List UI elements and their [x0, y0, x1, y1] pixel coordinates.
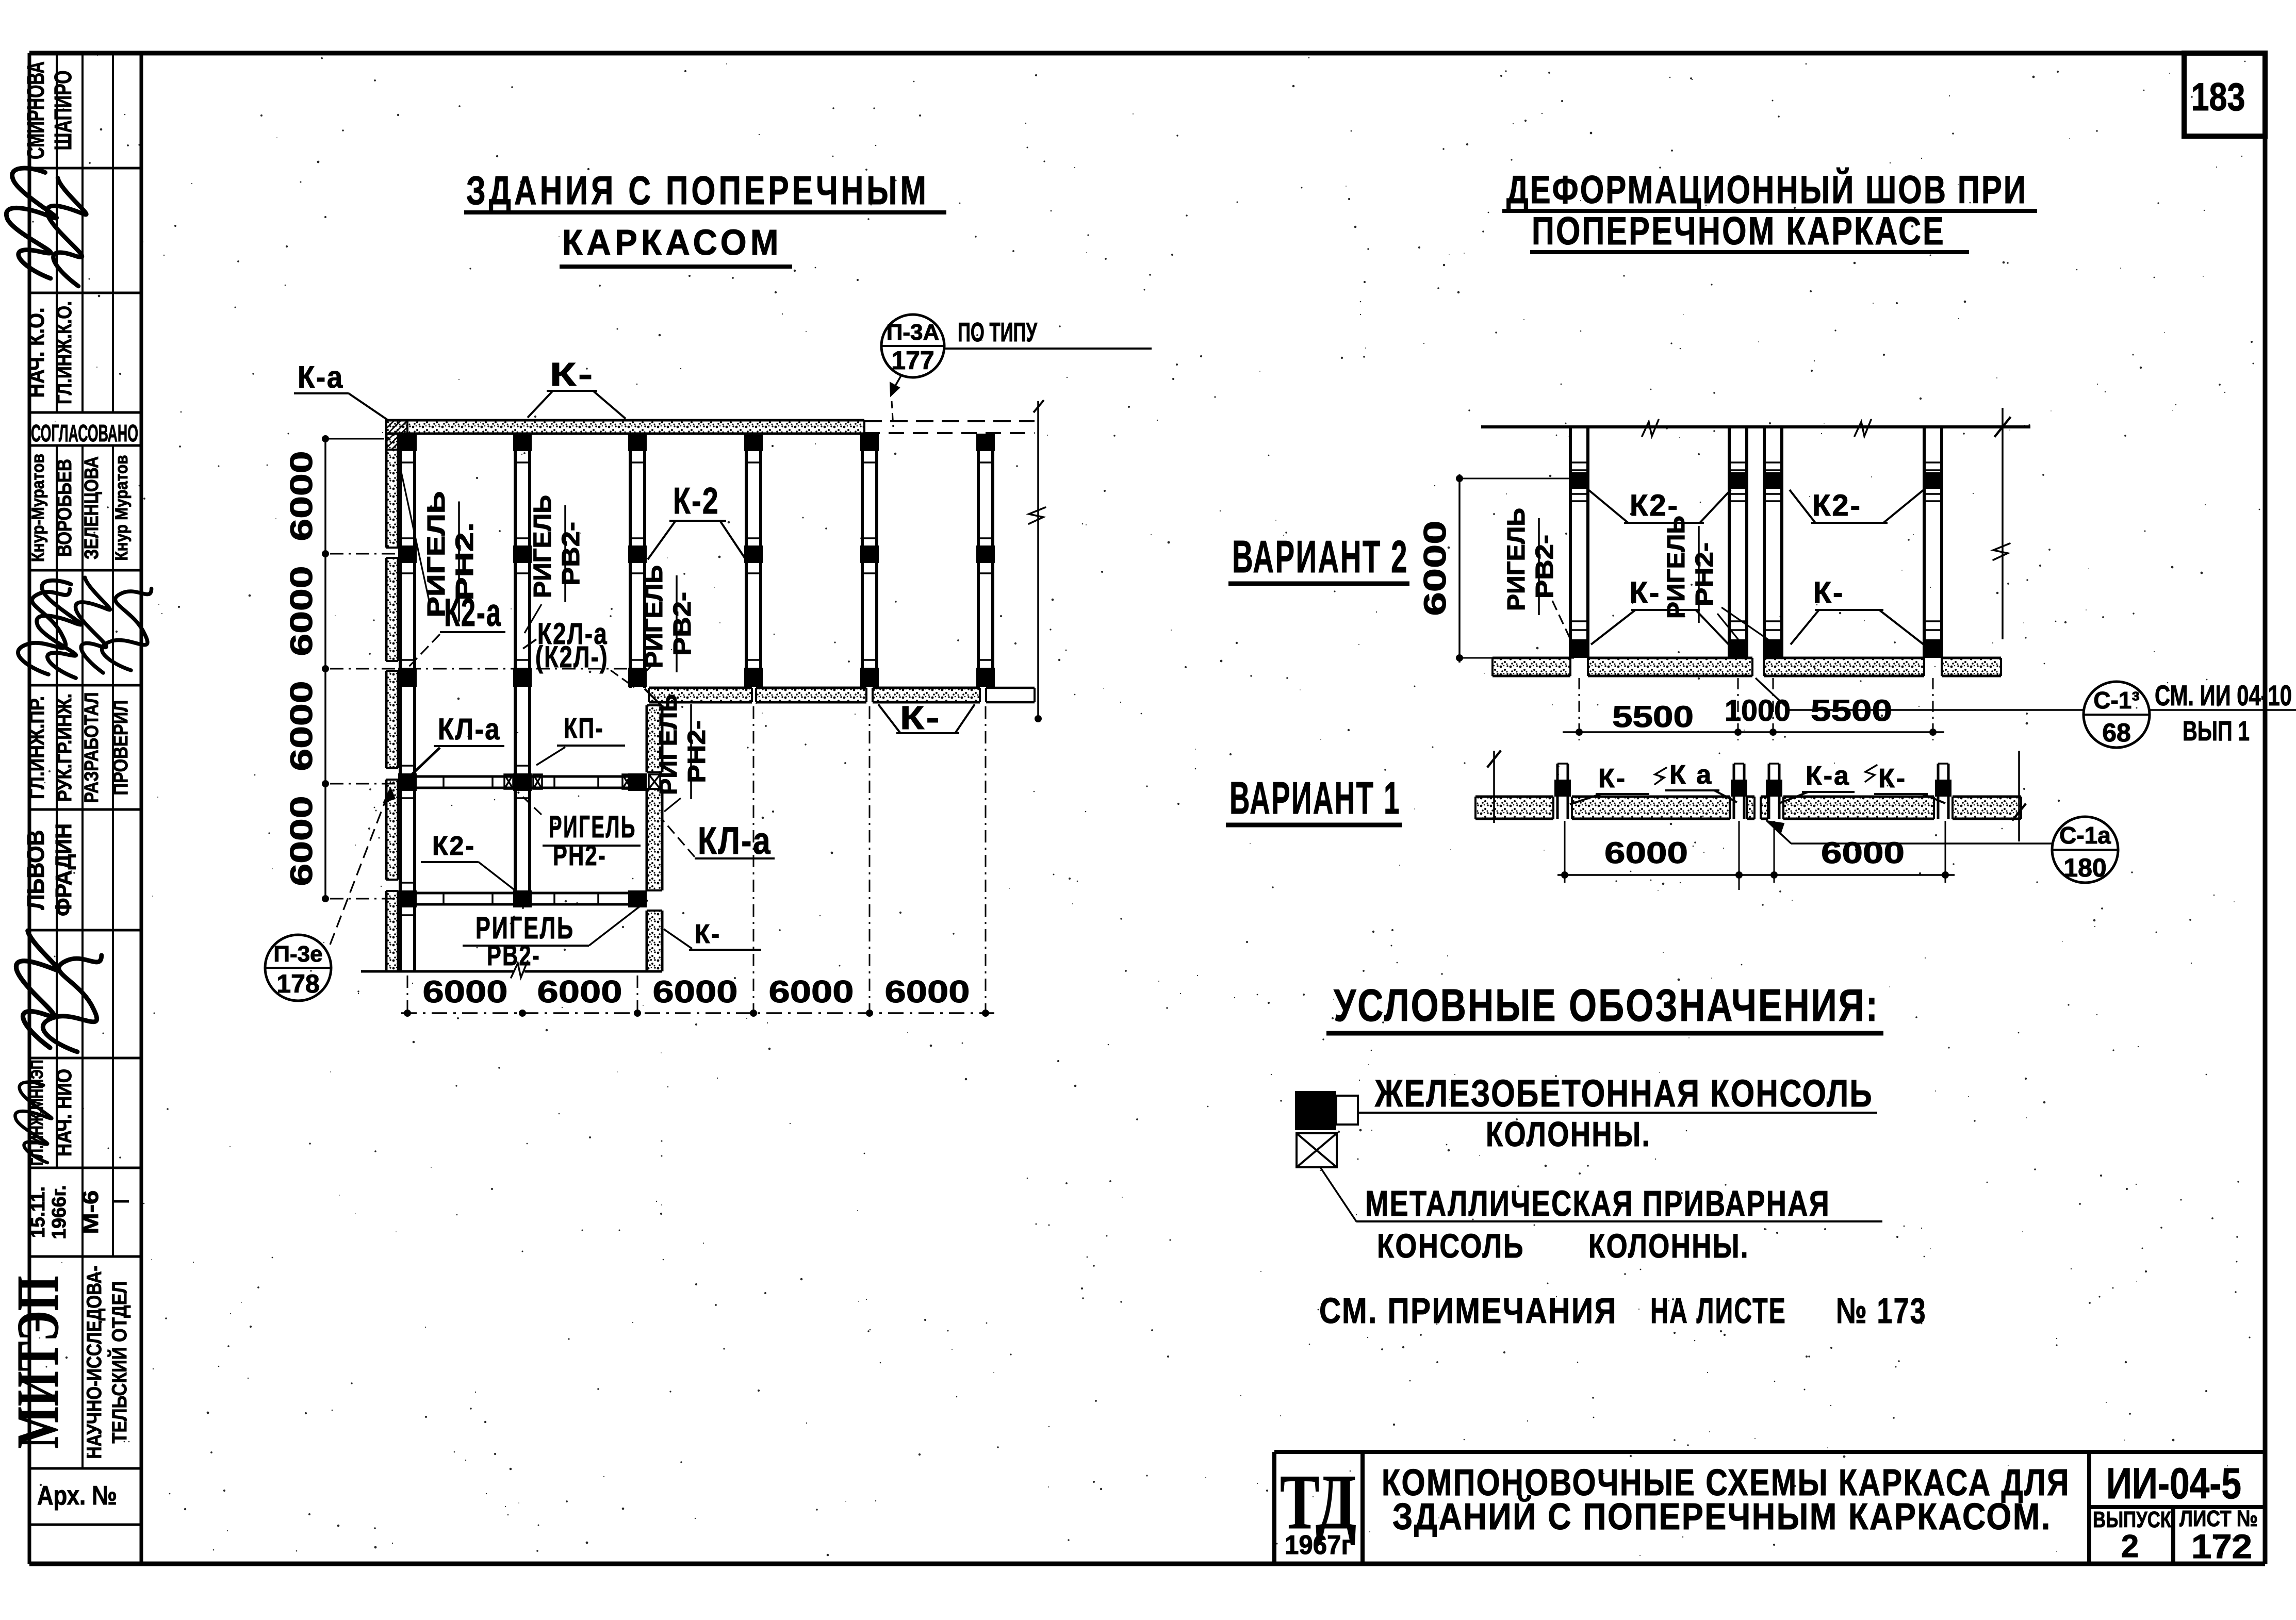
svg-text:РН2-: РН2-	[553, 839, 606, 871]
svg-text:П-3А: П-3А	[887, 320, 940, 345]
svg-text:6000: 6000	[1418, 521, 1452, 616]
svg-text:ТЕЛЬСКИЙ ОТДЕЛ: ТЕЛЬСКИЙ ОТДЕЛ	[107, 1281, 131, 1444]
svg-text:НА ЛИСТЕ: НА ЛИСТЕ	[1650, 1291, 1786, 1331]
svg-text:1000: 1000	[1725, 694, 1791, 728]
svg-text:РИГЕЛЬ: РИГЕЛЬ	[1663, 516, 1690, 619]
svg-text:ФРАДИН: ФРАДИН	[51, 823, 76, 916]
svg-text:ВЫП 1: ВЫП 1	[2183, 716, 2250, 747]
svg-text:ВАРИАНТ 2: ВАРИАНТ 2	[1232, 531, 1408, 582]
svg-text:1967г: 1967г	[1285, 1530, 1352, 1560]
svg-text:К-: К-	[1813, 576, 1845, 609]
svg-text:ПРОВЕРИЛ: ПРОВЕРИЛ	[109, 700, 132, 796]
svg-text:ЗДАНИЙ С ПОПЕРЕЧНЫМ КАРКАСОМ: ЗДАНИЙ С ПОПЕРЕЧНЫМ КАРКАСОМ.	[1392, 1495, 2052, 1538]
svg-text:ПОПЕРЕЧНОМ КАРКАСЕ: ПОПЕРЕЧНОМ КАРКАСЕ	[1532, 209, 1945, 253]
svg-text:К2-: К2-	[1812, 489, 1862, 522]
svg-text:6000: 6000	[769, 974, 854, 1009]
svg-text:С-1а: С-1а	[2059, 822, 2111, 849]
svg-text:6000: 6000	[284, 566, 319, 656]
svg-text:183: 183	[2191, 75, 2245, 119]
svg-text:ГЛ.ИНЖ.К.О.: ГЛ.ИНЖ.К.О.	[53, 301, 76, 404]
svg-text:РИГЕЛЬ: РИГЕЛЬ	[1503, 508, 1530, 611]
svg-text:68: 68	[2102, 718, 2131, 747]
svg-text:ВАРИАНТ 1: ВАРИАНТ 1	[1229, 772, 1401, 823]
svg-text:ЛЬВОВ: ЛЬВОВ	[22, 830, 49, 910]
svg-text:1966г.: 1966г.	[48, 1185, 70, 1239]
svg-text:СМИРНОВА: СМИРНОВА	[22, 61, 49, 159]
svg-text:СОГЛАСОВАНО: СОГЛАСОВАНО	[31, 420, 138, 447]
svg-text:НАУЧНО-ИССЛЕДОВА-: НАУЧНО-ИССЛЕДОВА-	[83, 1266, 106, 1459]
svg-text:К-: К-	[900, 699, 941, 736]
svg-text:К-2: К-2	[673, 481, 719, 522]
svg-text:РН2-: РН2-	[683, 720, 711, 783]
svg-text:РАЗРАБОТАЛ: РАЗРАБОТАЛ	[81, 692, 103, 803]
svg-text:6000: 6000	[284, 681, 319, 771]
svg-text:К-: К-	[550, 356, 595, 393]
svg-text:172: 172	[2191, 1527, 2252, 1565]
svg-text:ЖЕЛЕЗОБЕТОННАЯ КОНСОЛЬ: ЖЕЛЕЗОБЕТОННАЯ КОНСОЛЬ	[1374, 1072, 1873, 1115]
svg-text:РВ2-: РВ2-	[669, 592, 696, 656]
svg-text:РИГЕЛЬ: РИГЕЛЬ	[529, 495, 556, 598]
svg-text:6000: 6000	[653, 974, 738, 1009]
svg-text:МЕТАЛЛИЧЕСКАЯ ПРИВАРНАЯ: МЕТАЛЛИЧЕСКАЯ ПРИВАРНАЯ	[1365, 1183, 1830, 1224]
svg-text:6000: 6000	[423, 974, 508, 1009]
svg-text:НАЧ. НИО: НАЧ. НИО	[52, 1069, 76, 1156]
svg-text:КАРКАСОМ: КАРКАСОМ	[562, 222, 782, 262]
svg-text:6000: 6000	[537, 974, 622, 1009]
svg-text:К-а: К-а	[298, 360, 344, 394]
svg-text:Кнур-Муратов: Кнур-Муратов	[28, 454, 48, 562]
svg-text:КОНСОЛЬ: КОНСОЛЬ	[1377, 1227, 1524, 1265]
svg-text:УСЛОВНЫЕ ОБОЗНАЧЕНИЯ:: УСЛОВНЫЕ ОБОЗНАЧЕНИЯ:	[1334, 980, 1879, 1031]
svg-text:НАЧ. К.О.: НАЧ. К.О.	[24, 308, 49, 398]
svg-text:РУК.ГР.ИНЖ.: РУК.ГР.ИНЖ.	[54, 693, 76, 802]
svg-text:К2-: К2-	[1630, 489, 1679, 522]
svg-text:177: 177	[891, 346, 934, 375]
svg-text:С-1³: С-1³	[2093, 687, 2139, 714]
svg-text:(К2Л-): (К2Л-)	[535, 640, 609, 674]
svg-text:6000: 6000	[284, 451, 319, 541]
svg-text:№ 173: № 173	[1836, 1291, 1927, 1331]
svg-text:6000: 6000	[1821, 836, 1905, 870]
svg-text:МИТЭП: МИТЭП	[5, 1276, 71, 1449]
svg-text:РН2.: РН2.	[451, 522, 479, 601]
svg-text:К2-: К2-	[432, 831, 475, 861]
svg-text:ПО ТИПУ: ПО ТИПУ	[958, 318, 1037, 348]
svg-text:К-: К-	[1598, 764, 1627, 794]
svg-text:6000: 6000	[885, 974, 970, 1009]
svg-text:РВ2-: РВ2-	[557, 522, 585, 586]
svg-text:РИГЕЛЬ: РИГЕЛЬ	[641, 565, 668, 668]
svg-text:РИГЕЛЬ: РИГЕЛЬ	[655, 694, 682, 795]
svg-text:6000: 6000	[284, 796, 319, 886]
svg-text:К-: К-	[695, 919, 721, 949]
svg-text:РВ2-: РВ2-	[1531, 535, 1559, 599]
svg-text:2: 2	[2121, 1529, 2139, 1564]
svg-text:ИИ-04-5: ИИ-04-5	[2106, 1459, 2241, 1508]
svg-text:К-: К-	[1878, 764, 1907, 794]
svg-text:РН2-: РН2-	[1691, 542, 1718, 606]
svg-text:РВ2-: РВ2-	[487, 939, 540, 971]
svg-text:М-6: М-6	[78, 1191, 103, 1234]
svg-text:ВОРОБЬЕВ: ВОРОБЬЕВ	[53, 459, 76, 557]
svg-text:ЗДАНИЯ С ПОПЕРЕЧНЫМ: ЗДАНИЯ С ПОПЕРЕЧНЫМ	[466, 168, 929, 213]
svg-text:КЛ-а: КЛ-а	[438, 713, 501, 746]
svg-text:К-: К-	[1630, 576, 1661, 609]
svg-text:Арх. №: Арх. №	[37, 1481, 117, 1511]
svg-text:РИГЕЛЬ: РИГЕЛЬ	[423, 491, 450, 618]
svg-text:КОЛОННЫ.: КОЛОННЫ.	[1486, 1115, 1651, 1154]
svg-text:К-а: К-а	[1806, 761, 1850, 791]
svg-text:ДЕФОРМАЦИОННЫЙ ШОВ ПРИ: ДЕФОРМАЦИОННЫЙ ШОВ ПРИ	[1506, 168, 2027, 212]
svg-text:СМ. ИИ 04-10: СМ. ИИ 04-10	[2155, 679, 2292, 712]
svg-text:К а: К а	[1669, 760, 1713, 790]
svg-text:ЗЕЛЕНЦОВА: ЗЕЛЕНЦОВА	[81, 456, 103, 559]
svg-text:П-3е: П-3е	[273, 941, 322, 967]
svg-text:ГЛ.ИНЖ.ПР.: ГЛ.ИНЖ.ПР.	[26, 696, 48, 799]
svg-text:6000: 6000	[1604, 836, 1688, 870]
svg-text:180: 180	[2063, 853, 2106, 882]
svg-text:15.11.: 15.11.	[27, 1186, 49, 1238]
svg-text:КЛ-а: КЛ-а	[698, 819, 772, 862]
svg-text:5500: 5500	[1612, 700, 1694, 734]
svg-text:КП-: КП-	[564, 712, 604, 744]
svg-text:Кнур Муратов: Кнур Муратов	[112, 455, 132, 561]
svg-text:178: 178	[276, 969, 319, 998]
svg-text:ШАПИРО: ШАПИРО	[50, 71, 76, 151]
svg-text:КОЛОННЫ.: КОЛОННЫ.	[1588, 1227, 1749, 1265]
svg-text:СМ. ПРИМЕЧАНИЯ: СМ. ПРИМЕЧАНИЯ	[1319, 1291, 1617, 1331]
